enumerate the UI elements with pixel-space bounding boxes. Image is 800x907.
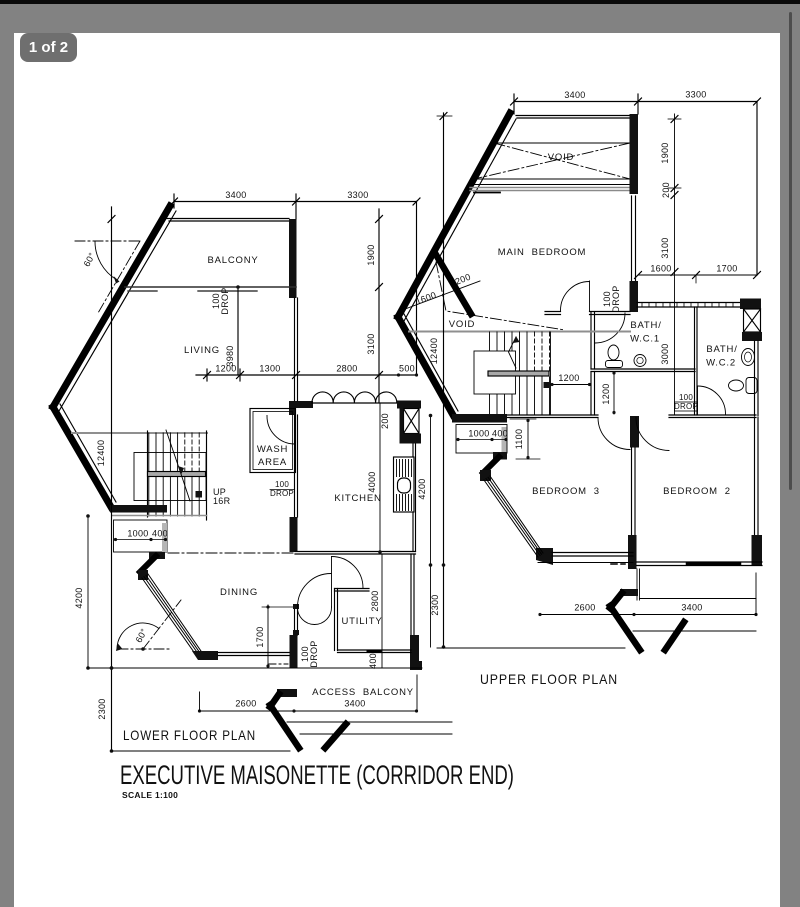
door: hall double swing — [598, 418, 630, 450]
door: bath2 — [697, 386, 699, 414]
centreline through void — [436, 262, 565, 330]
dim 1700 (dining door) — [255, 605, 294, 668]
svg-text:2300: 2300 — [430, 594, 440, 615]
wall: below bath1 west (double) — [590, 372, 592, 416]
stair arrow — [509, 337, 517, 368]
door: dining double-swing — [298, 574, 332, 608]
svg-text:3100: 3100 — [366, 333, 376, 354]
svg-text:100: 100 — [679, 393, 693, 402]
wall: bath1 north (double) — [590, 311, 631, 313]
wall: kitchen east (double) — [412, 444, 414, 552]
svg-text:200: 200 — [661, 182, 671, 198]
wall: east boundary below duct (double) — [754, 341, 756, 416]
svg-text:1000: 1000 — [127, 529, 148, 539]
wall: utility south (double) — [338, 649, 412, 651]
wall: corridor stub west of bedroom door — [545, 311, 561, 313]
svg-text:100: 100 — [275, 480, 289, 489]
svg-text:2300: 2300 — [97, 698, 107, 719]
svg-text:BEDROOM 3: BEDROOM 3 — [532, 486, 600, 497]
wall: thick below stairs (west) — [110, 505, 167, 513]
svg-text:400: 400 — [492, 429, 508, 439]
wall: corridor north (hatched) — [637, 303, 740, 308]
svg-text:BATH/: BATH/ — [630, 320, 661, 331]
dim lines far west (12400/2300/4200) — [74, 207, 290, 753]
label 1600/200 on diagonal — [405, 281, 480, 309]
svg-text:MAIN BEDROOM: MAIN BEDROOM — [498, 247, 587, 258]
centreline stub at dining door — [269, 663, 288, 665]
svg-text:4200: 4200 — [417, 478, 427, 499]
wire: dim extension x=416.5 — [416, 202, 418, 376]
svg-text:AREA: AREA — [258, 457, 287, 468]
label 100 DROP (bedroom door) — [602, 285, 621, 312]
svg-text:200: 200 — [454, 272, 472, 287]
svg-text:60°: 60° — [134, 627, 150, 645]
60 degree angle note (lower) — [116, 600, 181, 651]
svg-text:500: 500 — [399, 364, 415, 374]
room label BATH/W.C.1 — [630, 320, 662, 345]
svg-text:3300: 3300 — [347, 190, 368, 200]
wall: bath divider east — [694, 307, 696, 415]
svg-text:1600: 1600 — [414, 290, 437, 307]
wall: balcony east thick pier — [289, 219, 297, 298]
wall: void top (double) — [516, 115, 630, 117]
svg-text:3400: 3400 — [681, 603, 702, 613]
svg-text:BEDROOM 2: BEDROOM 2 — [663, 486, 731, 497]
door: kitchen to lobby — [331, 557, 333, 608]
wall: bedroom3 SW thick corner — [536, 548, 553, 565]
stair side rails — [147, 431, 149, 517]
wall: bedroom2 SE thick — [752, 535, 763, 566]
wall: dining east jamb (double with stubs) — [294, 607, 296, 635]
wall: balcony top (double line) — [167, 218, 289, 220]
wall: bedroom divider (double) — [631, 448, 633, 536]
svg-text:W.C.2: W.C.2 — [706, 358, 736, 369]
access balcony outer lines — [287, 721, 452, 723]
stair handrail — [148, 472, 206, 477]
dim 2600/3400 (access balcony) — [198, 675, 418, 713]
svg-text:4200: 4200 — [74, 587, 84, 608]
wall: bedroom divider thick south — [628, 535, 637, 569]
titles — [120, 671, 618, 800]
svg-text:VOID: VOID — [548, 152, 574, 163]
stair well rect (white) — [474, 351, 516, 394]
dim 1100 — [510, 419, 540, 459]
svg-text:4000: 4000 — [367, 471, 377, 492]
wall: utility east (double + thick end) — [410, 554, 412, 635]
dim right side (1900/200/3100) — [660, 114, 681, 415]
svg-text:WASH: WASH — [257, 444, 288, 455]
svg-text:3980: 3980 — [225, 345, 235, 366]
svg-text:12400: 12400 — [96, 440, 106, 467]
dim 2600/3400 (upper) — [538, 573, 757, 616]
wall: bedroom2 east (double) — [754, 418, 756, 536]
svg-text:1600: 1600 — [650, 264, 671, 274]
svg-text:2800: 2800 — [336, 364, 357, 374]
window band (bedroom3 west, angled) — [484, 476, 543, 557]
svg-text:UPPER FLOOR PLAN: UPPER FLOOR PLAN — [480, 671, 618, 687]
wall: corridor-end chevron (upper) — [620, 589, 638, 596]
access balcony floor line — [88, 667, 423, 669]
svg-text:BATH/: BATH/ — [706, 344, 737, 355]
svg-text:16R: 16R — [213, 496, 231, 506]
wall: bath1 south (double) — [591, 368, 695, 370]
wall: corridor end thick (NE) — [740, 299, 761, 310]
svg-text:1700: 1700 — [716, 264, 737, 274]
door: main bedroom — [589, 281, 591, 312]
svg-text:1900: 1900 — [660, 142, 670, 163]
svg-text:400: 400 — [152, 529, 168, 539]
svg-text:LIVING: LIVING — [184, 345, 220, 356]
wall: jog below planter (upper) — [493, 452, 507, 460]
svg-text:3400: 3400 — [564, 90, 585, 100]
window band (dining west, angled) — [142, 574, 201, 655]
wall: west diagonal lower segment — [398, 317, 453, 415]
wall: main bedroom east thick pier — [630, 114, 639, 194]
svg-text:1100: 1100 — [514, 429, 524, 450]
room label WASH AREA — [257, 444, 288, 468]
dim 1200 (landing) — [550, 373, 591, 386]
wire: inner face of diagonal — [404, 119, 516, 321]
kitchen sink counter — [394, 457, 415, 512]
wall: living/kitchen thick corner west — [289, 401, 313, 415]
label 100 DROP boxed (bath2) — [674, 393, 698, 411]
label UP 16R — [213, 487, 231, 506]
wall: west diagonal lower segment to stair corner — [53, 407, 111, 507]
wire: inner face lower — [404, 314, 458, 411]
wall: main bedroom east (double) — [631, 196, 633, 281]
dash marks at bedroom3 south — [611, 563, 625, 565]
svg-text:DROP: DROP — [270, 489, 294, 498]
wall: utility north (double) — [335, 588, 370, 590]
60 degree angle note (upper) — [75, 241, 140, 313]
stair (lower) top edge — [72, 432, 207, 434]
balcony parapet below void — [470, 184, 630, 186]
svg-text:SCALE 1:100: SCALE 1:100 — [122, 790, 178, 800]
svg-text:UTILITY: UTILITY — [342, 616, 383, 627]
void strip outline — [494, 142, 630, 144]
dim 1600/1700 — [635, 264, 761, 284]
svg-text:200: 200 — [380, 413, 390, 429]
svg-text:1200: 1200 — [558, 373, 579, 383]
wall: corridor-end chevron (lower) — [277, 689, 297, 697]
wash area box — [250, 409, 296, 473]
wire: 3980 interior dim — [237, 287, 239, 375]
wire: inner face of lower diagonal — [60, 404, 116, 502]
stairs upper: top edge — [409, 331, 630, 333]
stair right edge — [550, 332, 552, 415]
dims west of upper plan (4200/12400/2300) — [417, 113, 452, 649]
wall: kitchen south (double) — [295, 551, 416, 553]
dim line top (3400/3300) — [511, 90, 761, 115]
stair treads (lower flight) — [490, 377, 550, 415]
bedroom2 lower extension lines — [636, 569, 638, 600]
stair treads (upper flight) — [490, 332, 528, 371]
duct shaft with cross (kitchen NE) — [400, 405, 422, 444]
svg-text:2600: 2600 — [574, 603, 595, 613]
svg-text:3400: 3400 — [344, 699, 365, 709]
kitchen folding door (scallops) — [312, 392, 397, 403]
svg-text:1000: 1000 — [468, 429, 489, 439]
balcony sliding door track — [125, 286, 296, 288]
wall: dining SW thick corner — [192, 651, 218, 660]
svg-text:1200: 1200 — [601, 383, 611, 404]
planter ledge box (upper) — [456, 425, 508, 454]
wall: kitchen top east thick — [397, 401, 421, 409]
svg-text:DROP: DROP — [611, 285, 621, 312]
void cross (dash-dot X) — [494, 143, 630, 179]
label 100 DROP (balcony) — [211, 287, 230, 314]
stair handrail — [488, 371, 549, 376]
wall: bedroom2 south (double) — [637, 561, 763, 563]
svg-text:DROP: DROP — [309, 640, 319, 667]
svg-text:VOID: VOID — [449, 319, 475, 330]
wall: west diagonal facade (upper plan) — [398, 113, 510, 317]
wall: upper west thick horizontal — [452, 414, 507, 423]
label 100 DROP (wash) — [270, 480, 294, 498]
wall: west diagonal facade (balcony/living) — [53, 206, 170, 407]
svg-text:2600: 2600 — [235, 699, 256, 709]
wall: thick pier at bedroom SE — [630, 281, 639, 312]
wall: inner V (void triangle east side) — [435, 253, 471, 314]
wall: kitchen west (double) — [294, 415, 296, 517]
wall: dining south (double) — [218, 652, 289, 654]
svg-text:EXECUTIVE MAISONETTE (CORRIDOR: EXECUTIVE MAISONETTE (CORRIDOR END) — [120, 760, 514, 790]
stair well rectangle — [134, 453, 206, 501]
toilet (bath2) — [729, 380, 744, 391]
dim row mid (1200/1300/2800/500) — [196, 364, 418, 382]
svg-text:W.C.1: W.C.1 — [630, 334, 660, 345]
dim line top (3400/3300) — [171, 190, 421, 219]
toilet (bath1) — [608, 345, 619, 360]
svg-text:1300: 1300 — [259, 364, 280, 374]
stair treads lower flight — [149, 477, 199, 516]
svg-text:3300: 3300 — [685, 90, 706, 100]
svg-text:DINING: DINING — [220, 587, 258, 598]
stair treads upper flight — [149, 433, 178, 471]
dash-dot centreline living/dining — [168, 552, 294, 554]
svg-text:BALCONY: BALCONY — [207, 255, 258, 266]
dim line right of balcony (1900/3100) — [366, 209, 383, 402]
wall: utility west (double) — [334, 589, 336, 651]
wall: thick below dining opening — [290, 635, 298, 668]
basin (bath1) — [634, 355, 646, 367]
svg-text:1700: 1700 — [255, 626, 265, 647]
upper floor plan — [398, 90, 762, 651]
wire: kitchen interior dim 4000 — [379, 404, 381, 552]
wall: corridor south east part — [669, 414, 756, 416]
svg-text:3000: 3000 — [660, 343, 670, 364]
basin (bath2) — [742, 349, 755, 366]
wall: kitchen west thick lower — [290, 517, 298, 552]
svg-text:ACCESS BALCONY: ACCESS BALCONY — [312, 687, 414, 698]
svg-text:1900: 1900 — [366, 244, 376, 265]
svg-text:12400: 12400 — [429, 338, 439, 365]
svg-text:60°: 60° — [82, 251, 98, 269]
svg-text:KITCHEN: KITCHEN — [334, 493, 381, 504]
wall: bath1 west (double) — [590, 312, 592, 369]
svg-text:2800: 2800 — [370, 590, 380, 611]
lower floor plan — [53, 190, 452, 753]
planter ledge box — [114, 520, 168, 552]
dim 2800/400 (utility) — [368, 590, 380, 669]
svg-text:LOWER FLOOR PLAN: LOWER FLOOR PLAN — [123, 727, 256, 743]
svg-text:400: 400 — [368, 653, 378, 669]
room label BATH/W.C.2 — [706, 344, 738, 369]
wall: living east (double, below balcony pier) — [294, 298, 296, 401]
svg-text:3400: 3400 — [225, 190, 246, 200]
label 100 DROP (access) — [300, 640, 319, 667]
door: bath1 — [595, 313, 625, 343]
svg-text:DROP: DROP — [674, 402, 698, 411]
door: bedroom 2 — [636, 418, 669, 451]
dim 1200 vertical (corridor) — [601, 371, 616, 414]
svg-text:3100: 3100 — [660, 237, 670, 258]
stair direction cut line — [166, 430, 190, 501]
wall: bedroom3 south (double) — [552, 552, 633, 554]
wall: jog below planter — [149, 552, 165, 559]
duct shaft NE with cross — [742, 309, 762, 341]
svg-text:DROP: DROP — [220, 287, 230, 314]
wall: corridor south west part — [489, 414, 598, 416]
wire: inner face line of diagonal — [59, 211, 176, 411]
dim far right vertical — [756, 102, 758, 276]
